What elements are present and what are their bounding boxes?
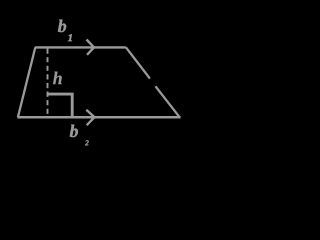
right-angle marker: [47, 94, 72, 117]
trapezoid top edge (base b1): [35, 46, 126, 48]
arrow on top edge: [87, 40, 95, 55]
label subscript 2 of b2: [85, 140, 89, 145]
trapezoid bottom edge (base b2): [17, 116, 180, 119]
trapezoid right leg lower segment: [156, 86, 180, 117]
label h: [53, 72, 62, 85]
trapezoid left leg: [18, 47, 35, 117]
arrow on bottom edge: [86, 110, 94, 126]
label subscript 1 of b1: [68, 34, 72, 41]
label b of b1: [58, 20, 66, 33]
label b of b2: [70, 125, 78, 138]
height dashed line: [47, 49, 49, 117]
trapezoid right leg upper segment: [126, 47, 150, 78]
